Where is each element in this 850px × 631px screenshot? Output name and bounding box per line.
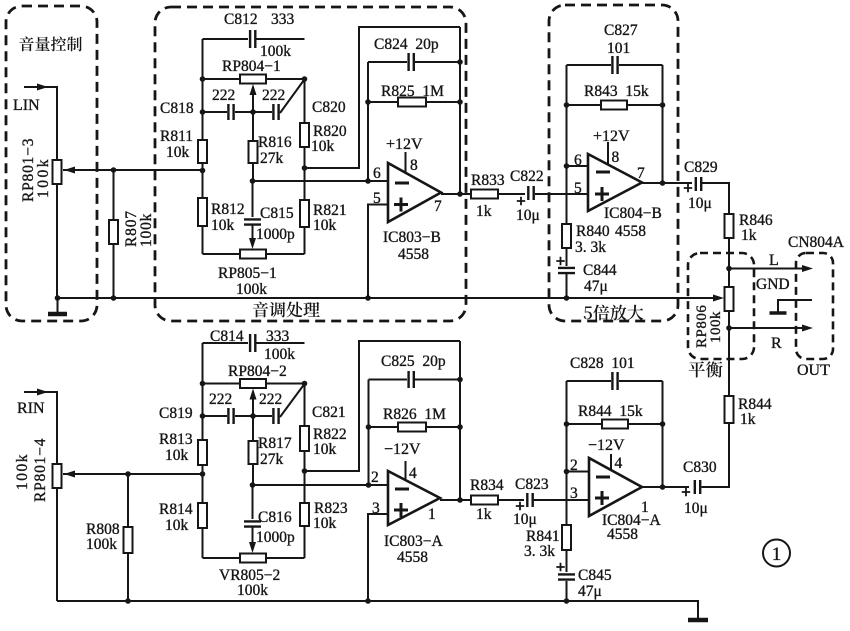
wire R844(15k) row <box>567 423 663 425</box>
svg-text:C815: C815 <box>260 205 294 222</box>
svg-text:+12V: +12V <box>593 128 630 145</box>
svg-text:R844 15k: R844 15k <box>578 403 643 420</box>
capacitor C845 <box>558 574 575 579</box>
wire R840 to C844 <box>566 248 568 266</box>
arrowhead RIN <box>37 389 48 396</box>
svg-text:CN804A: CN804A <box>788 234 845 251</box>
svg-text:100k: 100k <box>237 582 268 599</box>
wire R817 bottom <box>252 464 254 485</box>
wire pin 4 stub IC804-A <box>610 454 612 470</box>
svg-text:100k: 100k <box>708 311 724 343</box>
wire op-amp3 pin2 row <box>253 484 389 486</box>
svg-text:222: 222 <box>262 87 285 104</box>
capacitor C827 <box>612 56 617 74</box>
svg-text:C823: C823 <box>515 476 549 493</box>
junction R node <box>726 325 732 331</box>
svg-text:10μ: 10μ <box>516 207 540 224</box>
junction R825 right <box>457 99 463 105</box>
potentiometer VR805-2 <box>240 554 266 563</box>
plus input IC803-B <box>394 198 408 212</box>
polarity + of C822 <box>517 197 525 205</box>
svg-text:10k: 10k <box>313 217 337 234</box>
svg-text:10μ: 10μ <box>684 500 708 517</box>
wire IC804-A left vertical <box>566 381 568 525</box>
arrowhead RP801-3 wiper <box>64 167 75 174</box>
wire tone2 bottom row <box>203 557 305 559</box>
svg-text:10k: 10k <box>165 517 189 534</box>
wire pin 4 stub IC803-A <box>405 461 407 480</box>
junction C824 / output vert <box>457 59 463 65</box>
svg-text:27k: 27k <box>260 451 284 468</box>
wire RIN input <box>24 392 57 464</box>
svg-text:C812: C812 <box>224 11 258 28</box>
svg-text:C828 101: C828 101 <box>570 355 635 372</box>
minus input IC803-B <box>395 182 409 185</box>
junction pin3 vert / lower bus <box>365 598 371 604</box>
wire C829 to R846 <box>702 183 730 214</box>
svg-text:R811: R811 <box>160 128 193 145</box>
svg-text:IC803−B: IC803−B <box>383 229 441 246</box>
capacitor C829 <box>696 177 701 191</box>
wire feedback left vertical <box>367 62 369 181</box>
wire R816 vertical <box>252 112 254 141</box>
capacitor C824 <box>409 53 414 71</box>
op-amp IC804-A <box>589 458 642 516</box>
svg-text:IC803−A: IC803−A <box>384 533 443 550</box>
svg-text:R840: R840 <box>576 223 610 240</box>
wire R833 to C822 <box>498 193 525 195</box>
junction R843 left <box>564 102 570 108</box>
wire tone2 top row <box>203 342 305 344</box>
wire IC804-A right vertical <box>662 381 664 487</box>
junction left2 / pot row <box>200 381 206 387</box>
wire R811 top <box>202 112 204 140</box>
wire C815 to RP805-1 wiper <box>252 225 254 243</box>
resistor R820 <box>300 123 309 147</box>
wire R813 top <box>202 416 204 440</box>
svg-text:−12V: −12V <box>384 441 421 458</box>
wire C827 row <box>567 64 663 66</box>
junction right2 / pot row <box>302 381 308 387</box>
svg-text:100k: 100k <box>86 536 117 553</box>
svg-text:1k: 1k <box>740 411 756 428</box>
wire tone top row left <box>203 38 249 40</box>
svg-text:−12V: −12V <box>588 437 625 454</box>
wire cap row left <box>203 111 228 113</box>
wire cap2 row middle <box>235 415 272 417</box>
plus input IC803-A <box>394 503 408 517</box>
capacitor C814 <box>250 334 255 352</box>
svg-text:IC804−B: IC804−B <box>604 205 662 222</box>
wire R node to R844 <box>728 328 730 396</box>
resistor R821 <box>300 200 309 227</box>
wire tone bottom row <box>203 253 305 255</box>
wire pin 8 stub IC804-B <box>607 142 609 164</box>
wire C816 to VR805-2 wiper <box>252 527 254 547</box>
svg-text:1000p: 1000p <box>256 226 295 243</box>
polarity + of C829 <box>684 184 692 192</box>
svg-text:LIN: LIN <box>13 97 40 114</box>
svg-text:R814: R814 <box>159 501 193 518</box>
resistor R840 <box>562 224 571 248</box>
svg-text:27k: 27k <box>260 150 284 167</box>
plus input IC804-B <box>595 187 609 201</box>
wire R813 bottom <box>202 465 204 503</box>
junction R822 bottom feedback tap <box>302 468 308 474</box>
junction R808 / lower bus <box>125 598 131 604</box>
svg-text:4558: 4558 <box>398 246 429 263</box>
wire R834 to C823 <box>498 499 524 501</box>
svg-text:R843 15k: R843 15k <box>584 83 649 100</box>
wire L output <box>729 268 803 270</box>
potentiometer RP804-1 <box>240 75 266 84</box>
arrowhead RP801-4 wiper <box>64 471 75 478</box>
wire C823 to pin3 IC804-A <box>534 499 590 501</box>
wire C844 to bus <box>566 274 568 298</box>
resistor R825 <box>398 98 426 107</box>
arrowhead R output <box>802 325 813 332</box>
junction C825 / output vert <box>457 377 463 383</box>
junction left2 / cap row <box>200 413 206 419</box>
wire op-amp1 pin6 row <box>253 180 389 182</box>
svg-text:222: 222 <box>212 87 235 104</box>
svg-text:RP801−4: RP801−4 <box>32 438 49 502</box>
wire output row IC803-A <box>440 499 471 501</box>
svg-text:7: 7 <box>637 165 645 182</box>
wire C825 row <box>369 379 461 381</box>
dashed box: balance block RP806 <box>688 253 754 359</box>
resistor R808 <box>124 527 133 553</box>
svg-text:R: R <box>771 335 782 352</box>
polarity + of C823 <box>516 502 524 510</box>
wire C828 row <box>567 380 663 382</box>
svg-text:R834: R834 <box>470 477 504 494</box>
wire C820 diagonal to pot end <box>280 80 304 113</box>
arrowhead VR805-2 wiper <box>249 542 256 553</box>
capacitor C821 222 <box>273 408 278 424</box>
wire output row IC803-B <box>441 193 471 195</box>
svg-text:4558: 4558 <box>607 526 638 543</box>
wire C822 to pin5 IC804-B <box>535 193 588 195</box>
capacitor C822 <box>528 186 533 200</box>
junction output node IC804-A <box>660 484 666 490</box>
svg-text:R833: R833 <box>471 172 505 189</box>
wire R846 to L node <box>728 238 730 269</box>
minus input IC804-B <box>596 171 610 174</box>
resistor R833 <box>471 190 498 199</box>
junction pot bottom / ground bus <box>55 295 61 301</box>
svg-text:3. 3k: 3. 3k <box>524 543 555 560</box>
svg-text:1k: 1k <box>476 203 492 220</box>
svg-text:R816: R816 <box>258 134 292 151</box>
junction output node IC803-B <box>457 191 463 197</box>
potentiometer RP805-1 <box>240 250 266 259</box>
svg-text:C821: C821 <box>312 404 346 421</box>
wire pin2 stub IC804-A <box>567 471 590 473</box>
wire RP801-4 bottom <box>56 488 58 601</box>
svg-text:4: 4 <box>409 465 417 482</box>
wire R826 row <box>369 426 461 428</box>
capacitor C828 <box>612 372 617 390</box>
plus input IC804-A <box>595 491 609 505</box>
svg-text:10k: 10k <box>165 447 189 464</box>
wire output row IC804-B <box>642 182 692 184</box>
wire GND pin <box>778 300 812 311</box>
svg-text:R812: R812 <box>211 201 245 218</box>
capacitor C830 <box>695 480 700 494</box>
resistor R812 <box>198 198 207 226</box>
resistor R841 <box>562 525 571 550</box>
wire RP806 bottom <box>728 311 730 328</box>
svg-text:222: 222 <box>209 391 232 408</box>
wire pin3 to lower bus <box>368 514 388 601</box>
wire R output <box>729 327 803 329</box>
wire feedback2 left vertical <box>368 380 370 486</box>
capacitor C825 <box>409 371 414 388</box>
svg-text:L: L <box>769 252 779 269</box>
svg-text:10k: 10k <box>313 441 337 458</box>
junction pin6 wire / C815 <box>250 178 256 184</box>
capacitor C812 <box>250 30 255 48</box>
wire R816 bottom <box>252 163 254 181</box>
svg-text:5: 5 <box>574 180 582 197</box>
junction R807 / bus <box>111 295 117 301</box>
wire tone2 left vertical upper <box>202 343 204 440</box>
wire C830 to R844 corner <box>702 486 730 488</box>
junction C844 / bus <box>564 295 570 301</box>
svg-text:7: 7 <box>434 198 442 215</box>
wire LIN input <box>24 87 57 160</box>
svg-text:1k: 1k <box>476 506 492 523</box>
minus input IC803-A <box>395 488 409 491</box>
wire R807 bottom <box>113 244 115 298</box>
svg-text:100k: 100k <box>138 213 155 247</box>
resistor R807 <box>109 220 118 244</box>
wire R808 top <box>127 474 129 527</box>
svg-text:4558: 4558 <box>615 223 646 240</box>
svg-text:101: 101 <box>607 40 630 57</box>
svg-text:C829: C829 <box>684 159 718 176</box>
junction wiper / cap row <box>250 109 256 115</box>
junction R826 left <box>366 424 372 430</box>
wire C816 top <box>252 485 254 519</box>
wire R807 top <box>113 170 115 220</box>
junction pin2 wire / C816 <box>250 482 256 488</box>
capacitor C818 222 <box>228 104 233 120</box>
junction wiper / R808 <box>125 471 131 477</box>
wire R822 top <box>304 384 306 427</box>
wire pot RP804-1 row <box>203 78 305 80</box>
junction output node IC803-A <box>457 497 463 503</box>
label balance 平衡 <box>689 361 723 377</box>
junction output node IC804-B <box>660 180 666 186</box>
wire 5x right vertical <box>662 65 664 183</box>
junction R820 bottom feedback tap <box>302 165 308 171</box>
junction L node <box>726 266 732 272</box>
svg-text:C816: C816 <box>258 509 292 526</box>
junction wiper2 / cap2 row <box>250 413 256 419</box>
svg-text:47μ: 47μ <box>578 583 602 600</box>
resistor R844 (1k) <box>725 396 734 423</box>
wire RP804-1 wiper vertical <box>252 90 254 112</box>
junction C845 / lower bus <box>564 598 570 604</box>
svg-text:333: 333 <box>271 11 295 28</box>
junction left vert / cap row <box>200 109 206 115</box>
capacitor C815 <box>244 219 261 224</box>
junction R844 right <box>660 421 666 427</box>
junction R843 right <box>660 102 666 108</box>
wire R821 bottom <box>304 227 306 254</box>
wire RP806 top <box>728 269 730 288</box>
capacitor C820 222 <box>273 104 278 120</box>
wire tone left vertical upper <box>202 39 204 140</box>
svg-text:8: 8 <box>410 157 418 174</box>
wire R825 row <box>368 101 460 103</box>
polarity + of C830 <box>682 488 690 496</box>
arrowhead RP804-1 wiper <box>250 84 257 95</box>
ground volume-control block <box>57 298 59 313</box>
dashed box: 5x amplifier block <box>549 5 678 321</box>
ground lower bus <box>697 601 699 619</box>
junction input node left <box>200 168 206 174</box>
resistor R817 <box>249 441 258 464</box>
svg-text:1k: 1k <box>741 227 757 244</box>
junction R826 right <box>457 424 463 430</box>
wire R811 bottom <box>202 163 204 198</box>
svg-text:100k: 100k <box>264 346 295 363</box>
potentiometer RP804-2 <box>240 379 266 388</box>
svg-text:+12V: +12V <box>386 136 423 153</box>
svg-text:333: 333 <box>266 328 290 345</box>
label tone-processing 音调处理 <box>253 302 320 318</box>
junction right vert / pot row <box>302 76 308 82</box>
svg-text:C845: C845 <box>578 567 612 584</box>
wire R820 top <box>304 79 306 123</box>
wire pot RP804-2 row <box>203 383 305 385</box>
svg-text:100k: 100k <box>14 453 31 490</box>
svg-text:10μ: 10μ <box>688 195 712 212</box>
junction R825 left <box>365 99 371 105</box>
resistor R822 <box>300 426 309 451</box>
svg-text:RP804−1: RP804−1 <box>222 58 281 75</box>
polarity + of C845 <box>556 563 564 571</box>
wire R843 row <box>567 104 663 106</box>
svg-text:4558: 4558 <box>397 549 428 566</box>
wire R814 bottom <box>202 528 204 558</box>
junction input node left2 <box>200 471 206 477</box>
wire output vertical <box>459 27 461 194</box>
svg-text:C822: C822 <box>510 168 544 185</box>
svg-text:10k: 10k <box>311 138 335 155</box>
wire cap row middle <box>235 111 272 113</box>
wire C815 top <box>252 181 254 217</box>
resistor R846 <box>725 214 734 238</box>
wire R841 to C845 <box>566 550 568 572</box>
wire R823 bottom <box>304 526 306 558</box>
circled figure number 1 <box>763 540 790 567</box>
ground CN804A <box>777 300 779 312</box>
arrowhead RP805-1 wiper <box>249 238 256 249</box>
svg-text:GND: GND <box>756 276 790 293</box>
potentiometer RP806 <box>725 287 734 311</box>
wire pin 8 stub <box>405 152 407 172</box>
svg-text:OUT: OUT <box>797 362 830 379</box>
svg-text:3. 3k: 3. 3k <box>575 239 606 256</box>
wire R812 bottom <box>202 226 204 254</box>
svg-text:10k: 10k <box>313 515 337 532</box>
wire RP801-3 wiper to node <box>63 169 203 171</box>
wire C824 row <box>368 61 460 63</box>
svg-text:R826 1M: R826 1M <box>383 406 446 423</box>
svg-text:RIN: RIN <box>17 400 45 417</box>
wire feedback link to output top <box>305 27 461 168</box>
wire mid reference bus <box>58 297 714 299</box>
svg-text:10μ: 10μ <box>513 511 537 528</box>
svg-text:R825 1M: R825 1M <box>381 83 444 100</box>
svg-text:R813: R813 <box>159 431 193 448</box>
resistor R826 <box>398 423 426 432</box>
wire R817 vertical <box>252 416 254 441</box>
wire R822 bottom <box>304 451 306 503</box>
label 5x-amplify 5倍放大 <box>584 305 644 321</box>
dashed box: volume control block <box>6 6 97 321</box>
potentiometer RP801-4 <box>53 464 62 488</box>
resistor R816 <box>249 141 258 163</box>
svg-text:C820: C820 <box>312 99 346 116</box>
svg-text:3: 3 <box>570 485 578 502</box>
svg-text:C818: C818 <box>160 100 194 117</box>
svg-text:C825 20p: C825 20p <box>381 353 446 370</box>
junction pin5 vert / bus <box>365 295 371 301</box>
svg-text:8: 8 <box>612 149 620 166</box>
svg-text:10k: 10k <box>166 144 190 161</box>
arrowhead RP804-2 wiper <box>250 389 257 400</box>
potentiometer RP801-3 <box>53 160 62 184</box>
op-amp IC803-B <box>388 163 441 222</box>
wire R844 to C830 row <box>703 423 729 487</box>
capacitor C816 <box>244 521 261 526</box>
resistor R813 <box>198 440 207 465</box>
capacitor C844 <box>558 268 575 273</box>
svg-text:222: 222 <box>259 391 282 408</box>
wire output2 vertical <box>459 341 461 500</box>
dashed box: connector CN804A <box>796 253 833 359</box>
resistor R814 <box>198 503 207 528</box>
svg-text:1: 1 <box>772 544 782 565</box>
wire 5x left vertical <box>566 65 568 224</box>
junction pin2 node <box>366 482 372 488</box>
svg-text:47μ: 47μ <box>584 278 608 295</box>
svg-text:RP805−1: RP805−1 <box>218 265 277 282</box>
op-amp IC803-A <box>388 471 440 525</box>
capacitor C823 <box>527 493 532 507</box>
wire feedback link2 <box>305 341 461 471</box>
arrowhead LIN <box>37 84 48 91</box>
svg-text:C830: C830 <box>683 459 717 476</box>
junction R844 left <box>564 421 570 427</box>
svg-text:2: 2 <box>371 469 379 486</box>
svg-text:C824 20p: C824 20p <box>374 36 439 53</box>
resistor R844 (15k) <box>602 420 628 429</box>
svg-text:C814: C814 <box>210 328 244 345</box>
svg-text:4: 4 <box>615 455 623 472</box>
wire RP801-4 wiper row <box>63 473 203 475</box>
svg-text:C819: C819 <box>159 405 193 422</box>
resistor R843 <box>601 101 627 110</box>
svg-text:10k: 10k <box>211 217 235 234</box>
capacitor C819 222 <box>228 408 233 424</box>
minus input IC804-A <box>596 476 610 479</box>
